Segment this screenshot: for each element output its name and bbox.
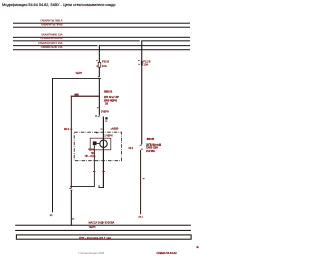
svg-text:ГАБАРИТЫ ПРАВ: ГАБАРИТЫ ПРАВ <box>41 23 63 27</box>
svg-text:ПР—8,5А: ПР—8,5А <box>85 155 96 158</box>
svg-text:ЧЕРН: ЧЕРН <box>76 72 83 75</box>
svg-text:ЗЗ: ЗЗ <box>105 102 108 105</box>
svg-text:ГАБАРИТЫ ЛЕВ А: ГАБАРИТЫ ЛЕВ А <box>40 19 62 23</box>
svg-text:СТЕКЛООЧИСТ 20А: СТЕКЛООЧИСТ 20А <box>38 41 63 45</box>
svg-text:М13: М13 <box>64 127 70 131</box>
svg-text:МАССА ЗАДН КУЗОВА: МАССА ЗАДН КУЗОВА <box>89 221 115 224</box>
svg-text:Модификация 54.64 54.62, 54ВУ: Модификация 54.64 54.62, 54ВУ - Цепи сте… <box>2 2 115 7</box>
svg-text:1 ЧЕРН: 1 ЧЕРН <box>104 136 113 138</box>
svg-text:ХЗ.1: ХЗ.1 <box>138 217 143 219</box>
svg-text:© Легион-Автодата 2009: © Легион-Автодата 2009 <box>78 252 105 255</box>
svg-text:2П 4гн ЧР: 2П 4гн ЧР <box>104 95 119 99</box>
svg-text:ПРИБОРЫ 10А КЗ: ПРИБОРЫ 10А КЗ <box>40 36 63 40</box>
svg-text:СХЕМА 54.64-03: СХЕМА 54.64-03 <box>157 251 178 255</box>
svg-text:10А: 10А <box>143 63 148 67</box>
svg-text:А100: А100 <box>112 126 119 130</box>
svg-text:888 88: 888 88 <box>147 138 155 141</box>
svg-text:2ЧУ4ВЗ.: 2ЧУ4ВЗ. <box>146 150 156 153</box>
svg-text:ХЗ2 - Колодка ХЗ.1 зад: ХЗ2 - Колодка ХЗ.1 зад <box>79 236 112 240</box>
svg-text:ВВЗ В: ВВЗ В <box>104 90 112 94</box>
svg-text:ОМЫВАТЕЛЬ 15А: ОМЫВАТЕЛЬ 15А <box>41 45 63 49</box>
svg-text:F33 В: F33 В <box>102 60 109 64</box>
svg-text:ХЗ.1: ХЗ.1 <box>128 147 134 150</box>
svg-text:ХЗ: ХЗ <box>50 215 53 217</box>
svg-text:2ЧЕРН: 2ЧЕРН <box>101 111 109 114</box>
svg-text:ЧЕРН: ЧЕРН <box>89 226 96 229</box>
svg-text:10А.: 10А. <box>102 64 108 68</box>
svg-text:ЗАЖИГАНИЕ 15А: ЗАЖИГАНИЕ 15А <box>41 33 63 37</box>
